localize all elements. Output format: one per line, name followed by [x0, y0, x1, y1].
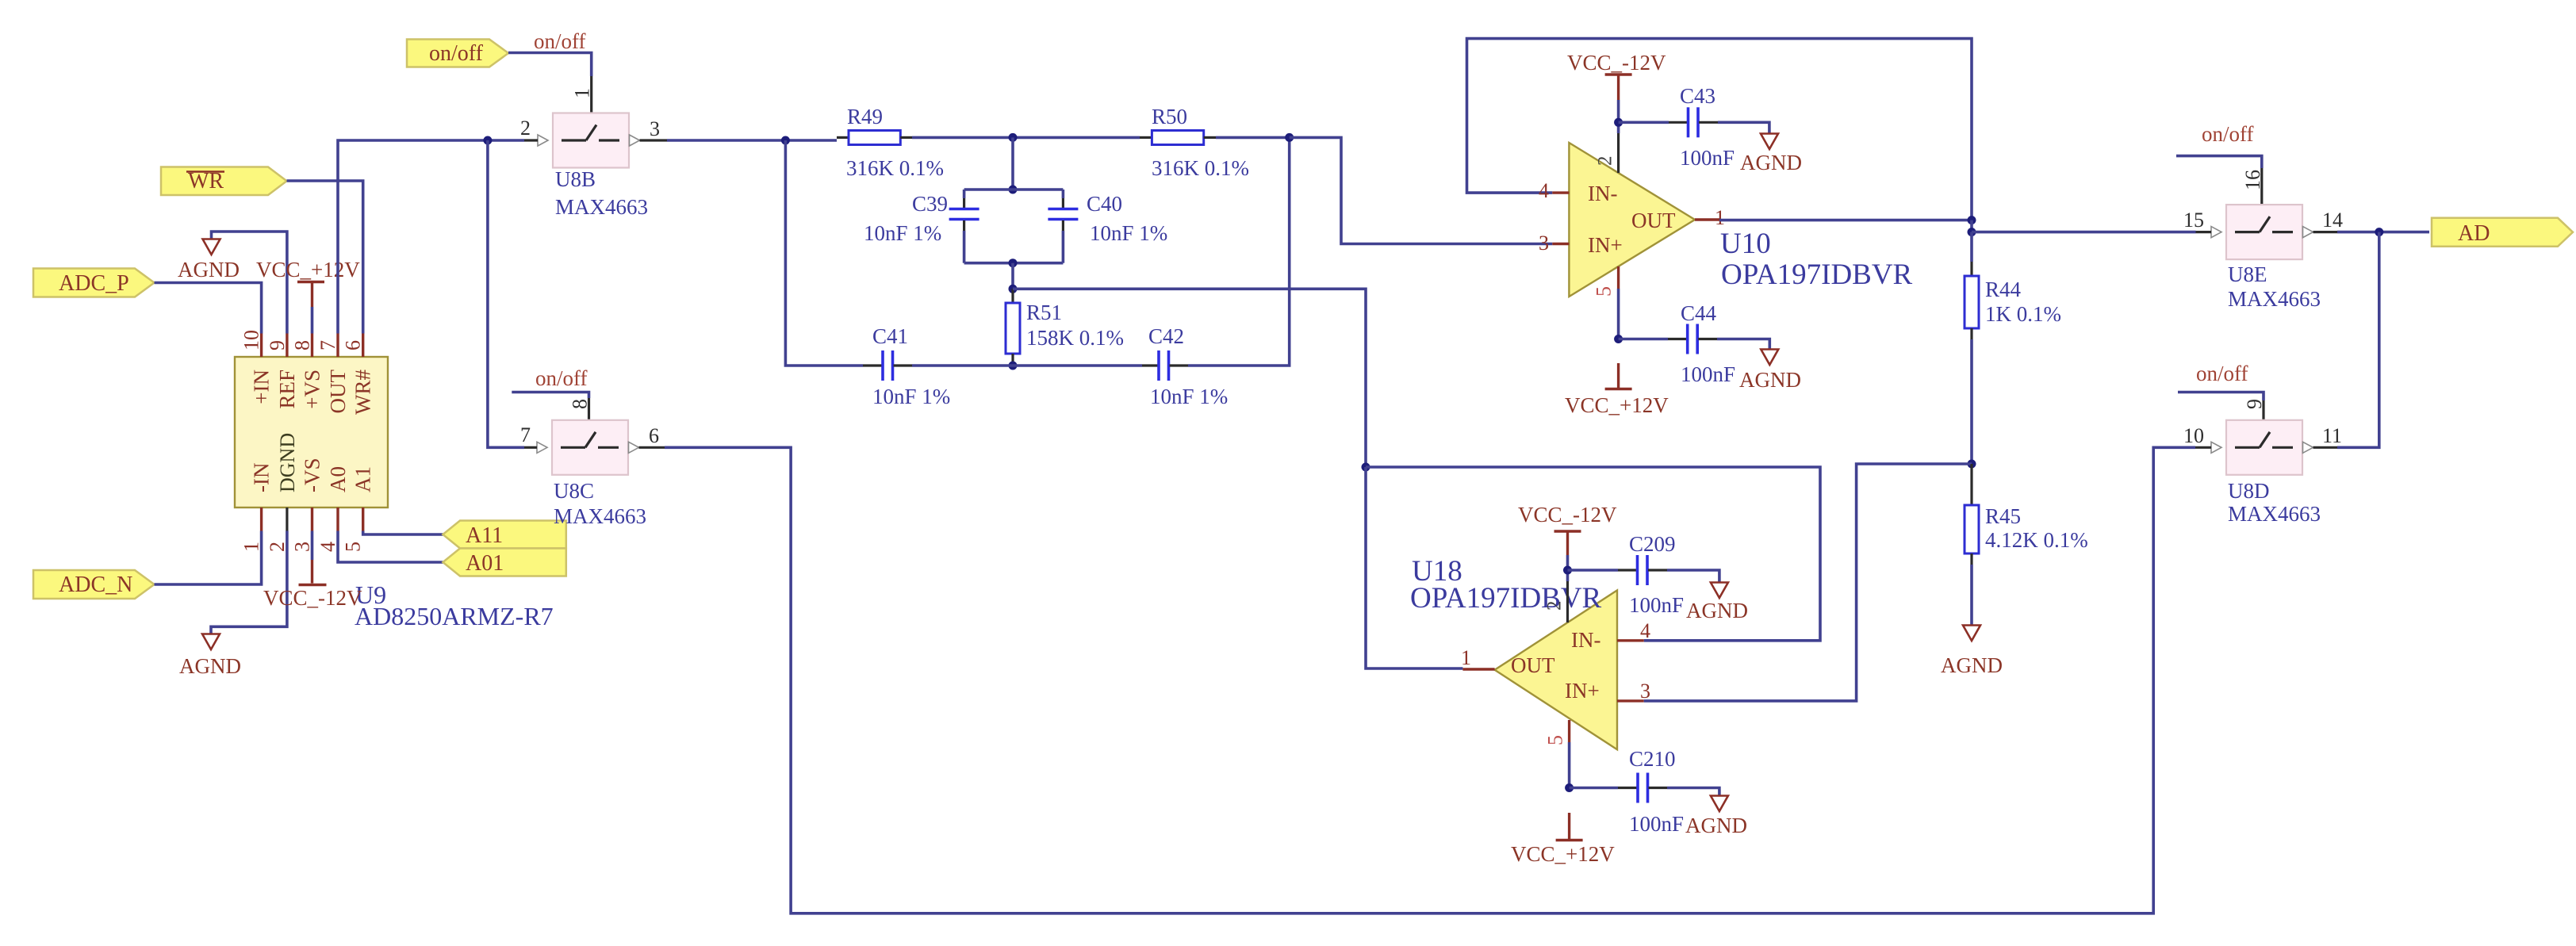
svg-text:10nF 1%: 10nF 1%	[872, 385, 950, 408]
wire U10 OUT to node J	[1719, 219, 1972, 222]
U8B pin 3 lead	[640, 139, 668, 141]
svg-text:C209: C209	[1629, 532, 1676, 556]
svg-text:OUT: OUT	[326, 370, 350, 414]
svg-text:1: 1	[1715, 206, 1725, 229]
wire U8E pin14 to AD	[2337, 231, 2429, 234]
svg-text:5: 5	[342, 542, 365, 552]
node D junction (R51 top / feedback)	[1009, 285, 1018, 293]
svg-text:100nF: 100nF	[1680, 146, 1735, 170]
svg-text:3: 3	[1539, 232, 1549, 255]
svg-text:U8D: U8D	[2228, 479, 2270, 503]
svg-text:15: 15	[2183, 209, 2204, 232]
wire WR to U9 pin6	[287, 181, 363, 334]
svg-text:C42: C42	[1148, 324, 1184, 348]
svg-text:C43: C43	[1680, 84, 1715, 108]
svg-text:100nF: 100nF	[1629, 812, 1684, 836]
wire R49 to R50	[912, 136, 1140, 140]
svg-text:VCC_-12V: VCC_-12V	[263, 586, 362, 610]
U10 pin 2 lead (V-)	[1617, 122, 1620, 133]
switch U8C pin 8 (control)	[588, 398, 590, 422]
svg-text:R49: R49	[847, 105, 883, 128]
wire node J to node K	[1970, 220, 1973, 232]
U8E pin 15 lead	[2196, 231, 2212, 233]
U8C pin 7 lead	[524, 446, 537, 449]
wire cap bottom rail	[964, 262, 1064, 265]
wire R50 to node F	[1216, 136, 1290, 140]
svg-text:10nF 1%: 10nF 1%	[1090, 221, 1167, 245]
svg-text:DGND: DGND	[276, 433, 299, 492]
svg-text:A11: A11	[466, 523, 503, 548]
U9 pin 3 lead	[311, 507, 313, 531]
svg-text:C40: C40	[1087, 192, 1122, 216]
svg-text:OPA197IDBVR: OPA197IDBVR	[1410, 582, 1602, 615]
resistor R50	[1140, 105, 1249, 180]
svg-text:AD8250ARMZ-R7: AD8250ARMZ-R7	[355, 602, 554, 630]
wire on/off to U8D pin9	[2178, 393, 2264, 401]
wire C42 up to R50 right node	[1188, 137, 1290, 366]
wire R44 to node N	[1970, 339, 1973, 464]
svg-text:4: 4	[1539, 179, 1549, 202]
U8D pin 10 lead	[2195, 446, 2211, 449]
capacitor C209	[1568, 532, 1719, 617]
svg-text:IN-: IN-	[1588, 182, 1617, 205]
wire U10 feedback loop (OUT to IN-)	[1467, 39, 1972, 220]
svg-text:AGND: AGND	[1685, 814, 1747, 837]
wire node K to U8E pin15	[1972, 231, 2196, 234]
svg-text:4: 4	[1640, 619, 1650, 642]
svg-text:C44: C44	[1681, 301, 1717, 325]
svg-text:16: 16	[2241, 170, 2264, 190]
port ADC_P	[33, 269, 155, 297]
wire node D feedback to node G	[1013, 289, 1366, 467]
svg-text:U8C: U8C	[554, 479, 594, 503]
svg-text:U8B: U8B	[555, 167, 596, 191]
U8D output triangle (pin11)	[2303, 442, 2313, 453]
svg-text:4: 4	[316, 542, 339, 552]
wire ADC_P to U9 pin10	[155, 283, 262, 334]
U8D input triangle (pin10)	[2211, 442, 2221, 453]
power VCC_+12V (U9 +VS)	[256, 258, 360, 334]
U18 pin 5 lead (V+)	[1568, 720, 1570, 742]
U8C pin 6 lead	[639, 446, 665, 449]
svg-text:+IN: +IN	[250, 370, 274, 404]
svg-text:MAX4663: MAX4663	[2228, 287, 2321, 311]
capacitor C210	[1570, 747, 1719, 836]
wire on/off flag to U8B pin1	[508, 53, 592, 77]
svg-text:on/off: on/off	[2196, 362, 2248, 385]
node C junction (R49/R50/caps)	[1009, 133, 1018, 142]
wire node B down to C41 line	[785, 140, 863, 366]
power VCC_+12V (U18)	[1511, 813, 1615, 866]
U9 pin 10 lead	[260, 334, 263, 358]
port AD	[2432, 218, 2573, 247]
U18 pin 4 lead (IN-)	[1617, 639, 1644, 642]
svg-text:IN+: IN+	[1565, 679, 1600, 703]
svg-text:OUT: OUT	[1631, 209, 1676, 232]
resistor R51	[1006, 289, 1124, 366]
svg-text:6: 6	[342, 340, 365, 350]
svg-text:R50: R50	[1152, 105, 1187, 128]
svg-text:2: 2	[520, 117, 531, 140]
svg-text:C39: C39	[912, 192, 948, 216]
wire U8B pin3 to R49	[667, 139, 837, 142]
U10 pin 1 lead (OUT)	[1695, 218, 1719, 220]
node I junction (V+ / C44)	[1614, 335, 1623, 343]
svg-text:1: 1	[240, 542, 263, 552]
capacitor C40	[1048, 190, 1167, 263]
bottom rail wire (U8C out to U8D in)	[665, 447, 2195, 913]
U9 pin 8 lead	[311, 334, 313, 358]
svg-text:10: 10	[2183, 424, 2204, 447]
resistor R44	[1965, 262, 2061, 339]
capacitor C44	[1619, 301, 1770, 386]
junction cap top rail	[1009, 186, 1018, 194]
svg-text:OPA197IDBVR: OPA197IDBVR	[1721, 259, 1913, 291]
ground AGND (U9 DGND pin2)	[179, 531, 287, 679]
svg-text:14: 14	[2322, 209, 2343, 232]
svg-text:MAX4663: MAX4663	[554, 504, 646, 528]
U9 pin 4 lead	[336, 507, 339, 531]
svg-text:1: 1	[571, 88, 594, 98]
node P junction (AD / U8D pin11)	[2375, 228, 2383, 236]
U8E output triangle (pin14)	[2303, 227, 2313, 238]
port on/off (top left flag)	[407, 40, 508, 67]
svg-text:7: 7	[520, 423, 531, 446]
svg-text:2: 2	[1595, 156, 1616, 167]
U9 pin 9 lead	[286, 334, 288, 358]
switch U8C MAX4663	[552, 420, 628, 475]
svg-text:10nF 1%: 10nF 1%	[1150, 385, 1228, 408]
power VCC_+12V (U10)	[1565, 363, 1669, 417]
svg-text:-VS: -VS	[301, 458, 324, 492]
svg-text:3: 3	[650, 117, 660, 140]
svg-text:9: 9	[266, 340, 289, 350]
node F junction (R50 right)	[1285, 133, 1294, 142]
svg-text:11: 11	[2322, 424, 2342, 447]
U8E pin 14 lead	[2313, 231, 2338, 233]
wire U9 A1 (pin5) to A11	[363, 531, 443, 535]
ground AGND (C43)	[1740, 134, 1802, 175]
wire node C down to cap rail	[1011, 137, 1014, 190]
wire rail to R51 node	[1011, 263, 1014, 289]
node G junction (feedback tee)	[1362, 463, 1370, 472]
ground AGND (C44)	[1739, 350, 1801, 393]
node B junction (U8B out / filter input)	[781, 136, 790, 145]
resistor R49	[837, 105, 944, 180]
svg-text:316K 0.1%: 316K 0.1%	[1152, 156, 1249, 180]
svg-text:U10: U10	[1720, 228, 1771, 260]
svg-text:C210: C210	[1629, 747, 1676, 771]
svg-text:AGND: AGND	[1941, 653, 2003, 677]
ground AGND (R45)	[1941, 565, 2003, 677]
switch U8D pin 9 (control)	[2262, 400, 2264, 422]
U8B output triangle (pin3)	[630, 135, 640, 146]
ground AGND (C210)	[1685, 796, 1747, 838]
svg-text:2: 2	[1544, 601, 1566, 611]
svg-text:VCC_-12V: VCC_-12V	[1567, 51, 1666, 75]
node L junction (U18 V- / C209)	[1563, 566, 1572, 575]
svg-text:AGND: AGND	[1686, 599, 1748, 622]
port A01	[443, 549, 565, 576]
capacitor C41	[863, 324, 950, 408]
wire node G down to U18 OUT	[1366, 467, 1462, 668]
svg-text:1: 1	[1461, 646, 1471, 669]
U9 pin 7 lead	[336, 334, 339, 358]
wire node A down to U8C pin7	[488, 140, 524, 447]
U9 pin 5 lead	[362, 507, 364, 531]
switch U8D MAX4663	[2226, 420, 2302, 475]
svg-text:on/off: on/off	[534, 29, 586, 53]
U8C input triangle (pin7)	[537, 442, 547, 453]
svg-text:VCC_-12V: VCC_-12V	[1518, 503, 1617, 527]
port ADC_N	[33, 570, 155, 599]
op-amp U18 OPA197IDBVR	[1410, 555, 1617, 749]
svg-text:3: 3	[291, 542, 314, 552]
wire on/off to U8C pin8	[512, 393, 588, 399]
switch U8B pin 1 (control)	[590, 76, 592, 115]
svg-text:on/off: on/off	[2202, 122, 2254, 146]
U10 pin 3 lead (IN+)	[1552, 243, 1569, 245]
node E junction (R51 bottom / C41-C42 line)	[1009, 362, 1018, 370]
wire node N to U18 IN+	[1644, 464, 1972, 701]
svg-text:R51: R51	[1026, 301, 1062, 324]
svg-text:MAX4663: MAX4663	[2228, 502, 2321, 526]
wire node P down to U8D pin11	[2337, 232, 2379, 448]
svg-text:A1: A1	[351, 466, 375, 492]
svg-text:REF: REF	[275, 370, 299, 409]
wire on/off to U8E pin16	[2176, 156, 2262, 168]
svg-text:8: 8	[569, 399, 592, 409]
U8D pin 11 lead	[2313, 446, 2338, 449]
U10 pin 4 lead (IN-)	[1552, 191, 1569, 193]
svg-text:-IN: -IN	[250, 463, 274, 492]
wire node G to U18 IN-	[1366, 467, 1820, 641]
U9 pin 2 lead (DGND)	[286, 507, 288, 531]
node K junction (U8E input tap)	[1968, 228, 1976, 236]
U8B pin 2 lead	[524, 139, 538, 141]
switch U8E pin 16 (control)	[2260, 168, 2263, 206]
svg-text:ADC_N: ADC_N	[59, 573, 132, 597]
node M junction (U18 V+ / C210)	[1565, 783, 1574, 792]
svg-text:A01: A01	[466, 551, 504, 576]
switch U8E MAX4663	[2226, 205, 2302, 259]
svg-text:R45: R45	[1985, 504, 2021, 528]
power VCC_-12V (U9 -VS)	[263, 531, 362, 611]
svg-text:4.12K 0.1%: 4.12K 0.1%	[1985, 528, 2088, 552]
wire node F to U10 IN+	[1290, 137, 1553, 243]
svg-text:VCC_+12V: VCC_+12V	[1511, 842, 1615, 866]
junction cap bottom rail	[1009, 259, 1018, 267]
U18 pin 3 lead (IN+)	[1617, 699, 1644, 702]
U10 pin 5 lead (V+)	[1617, 266, 1620, 289]
U8E input triangle (pin15)	[2211, 227, 2221, 238]
capacitor C39	[864, 190, 979, 263]
svg-text:5: 5	[1544, 735, 1567, 745]
svg-text:IN-: IN-	[1571, 628, 1600, 652]
svg-text:6: 6	[649, 424, 659, 447]
node A junction (U9 OUT / U8B-2 / U8C-7)	[483, 136, 492, 145]
capacitor C43	[1619, 84, 1769, 170]
wire node K down to R44	[1970, 232, 1973, 262]
svg-text:OUT: OUT	[1511, 653, 1555, 677]
svg-text:U8E: U8E	[2228, 262, 2267, 286]
svg-text:AGND: AGND	[1739, 368, 1801, 392]
op-amp U10 OPA197IDBVR	[1569, 143, 1912, 297]
svg-text:C41: C41	[872, 324, 908, 348]
port WR	[161, 167, 287, 196]
svg-text:WR#: WR#	[351, 370, 375, 415]
svg-text:ADC_P: ADC_P	[59, 271, 129, 296]
power VCC_-12V (U10)	[1567, 51, 1666, 122]
svg-text:on/off: on/off	[429, 41, 484, 66]
svg-text:AGND: AGND	[179, 654, 241, 678]
node J junction (OUT / feedback)	[1968, 216, 1976, 224]
U9 pin 6 lead	[362, 334, 364, 358]
U18 pin 1 lead (OUT)	[1462, 668, 1494, 670]
U9 pin 1 lead	[260, 507, 263, 531]
svg-text:1K 0.1%: 1K 0.1%	[1985, 302, 2061, 326]
node H junction (V- / C43)	[1614, 118, 1623, 127]
node N junction (R44/R45/U18 IN+)	[1968, 460, 1976, 469]
wire ADC_N to U9 pin1	[155, 531, 262, 585]
svg-text:on/off: on/off	[535, 366, 588, 390]
svg-text:R44: R44	[1985, 278, 2022, 301]
svg-text:+VS: +VS	[301, 370, 324, 409]
U18 pin 2 lead (V-)	[1566, 570, 1570, 581]
svg-text:8: 8	[291, 340, 314, 350]
svg-text:VCC_+12V: VCC_+12V	[1565, 393, 1669, 417]
U8C output triangle (pin6)	[629, 442, 639, 453]
wire C41 to C42	[912, 364, 1142, 367]
svg-text:IN+: IN+	[1588, 233, 1623, 257]
svg-text:AD: AD	[2458, 221, 2490, 246]
svg-text:3: 3	[1640, 680, 1650, 703]
svg-text:100nF: 100nF	[1629, 593, 1684, 617]
svg-text:MAX4663: MAX4663	[555, 195, 648, 219]
svg-text:158K 0.1%: 158K 0.1%	[1026, 326, 1124, 350]
resistor R45	[1965, 464, 2088, 565]
wire U9 A0 (pin4) to A01	[338, 531, 443, 563]
svg-text:9: 9	[2243, 399, 2266, 409]
svg-text:AGND: AGND	[178, 258, 240, 282]
svg-text:2: 2	[266, 542, 289, 552]
svg-text:A0: A0	[326, 466, 350, 492]
switch U8B MAX4663	[553, 113, 629, 168]
wire cap top rail	[964, 188, 1064, 191]
ground AGND (C209)	[1686, 583, 1748, 623]
power VCC_-12V (U18)	[1518, 503, 1617, 570]
svg-text:10nF 1%: 10nF 1%	[864, 221, 941, 245]
ground AGND (top, REF pin)	[178, 232, 287, 334]
U8B input triangle (pin2)	[538, 135, 548, 146]
IC U9 AD8250ARMZ-R7 body	[235, 357, 388, 507]
svg-text:7: 7	[316, 340, 339, 350]
svg-text:10: 10	[240, 330, 263, 350]
svg-text:VCC_+12V: VCC_+12V	[256, 258, 360, 282]
svg-text:5: 5	[1593, 286, 1616, 297]
svg-text:AGND: AGND	[1740, 151, 1802, 174]
port A11	[443, 521, 565, 549]
svg-text:316K 0.1%: 316K 0.1%	[846, 156, 944, 180]
capacitor C42	[1142, 324, 1228, 408]
wire U9 OUT (pin7) up to node A	[338, 140, 524, 334]
svg-text:100nF: 100nF	[1681, 362, 1735, 386]
